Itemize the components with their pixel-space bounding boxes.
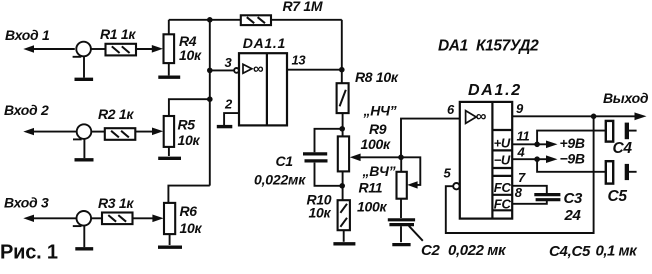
node pin11 junction [534,142,540,148]
svg-text:R8 10к: R8 10к [355,69,399,85]
svg-text:R3 1к: R3 1к [98,195,134,211]
label C3 24 [564,190,584,224]
resistor R2 [105,128,136,140]
op-amp DA1.1 [239,53,287,125]
resistor R7 [241,15,271,25]
svg-text:С4,С5: С4,С5 [549,243,591,260]
svg-text:R9: R9 [369,121,387,137]
svg-text:Рис. 1: Рис. 1 [0,242,58,264]
ground (input 3 jack) [75,226,93,249]
svg-text:DA1.2: DA1.2 [468,82,522,99]
svg-text:FC: FC [494,180,512,195]
wire R2 to R5 wiper arrow [135,128,163,136]
label R1 1к [100,26,136,42]
wire -9V rail to C5 [537,159,606,172]
op-amp DA1.2 label [468,82,522,99]
label НЧ R9 100к [361,103,397,153]
svg-text:0,022мк: 0,022мк [254,171,306,187]
svg-text:5: 5 [444,166,452,181]
label R8 10к [355,69,399,85]
potentiometer R5 [164,116,174,147]
capacitor C4 [606,121,637,142]
pin 8 label [515,185,523,200]
pin 6 label [447,102,455,117]
svg-text:С5: С5 [608,188,628,205]
wire R3 to R6 wiper arrow [133,215,164,223]
svg-text:6: 6 [447,102,455,117]
label Рис. 1 [0,242,58,264]
svg-text:R1 1к: R1 1к [100,26,136,42]
wire junction to R11 top [400,157,402,172]
svg-text:С3: С3 [564,190,584,207]
label С4,С5 0,1 мк [549,242,638,259]
ground (R5 bottom) [158,147,181,158]
svg-text:R11: R11 [359,180,383,196]
node R9/C1/R10 [339,183,345,189]
node pin13/rail [339,67,345,73]
wire R4 top to rail [168,20,170,35]
node bus/R5 [207,96,213,102]
svg-text:DA1.1: DA1.1 [243,35,286,51]
node output/feedback [591,114,597,120]
node Вход 2 label [4,102,49,118]
pin 2 label [224,97,233,112]
resistor R10 [338,200,350,230]
wire R1 to R4 wiper arrow [136,45,163,53]
wire pin 7 to C3 [512,186,547,193]
wire C1 bottom to node [315,163,343,186]
wire R9 wiper arrow from junction [350,154,401,162]
svg-text:24: 24 [564,207,582,224]
label C4 [613,140,633,157]
label C2 callout [409,226,507,259]
ground (input 1 jack) [75,56,94,79]
ground (C2 bottom) [392,226,410,244]
svg-text:3: 3 [225,55,233,70]
wire summing bus vertical [209,20,211,186]
pin 9 label [516,101,524,116]
svg-text:10к: 10к [180,220,203,236]
label R6 10к [180,203,203,236]
label R3 1к [98,195,134,211]
wire input 3 with left arrow [23,215,76,222]
svg-text:0,1 мк: 0,1 мк [596,242,639,259]
wire R5 top to bus [169,99,210,116]
svg-text:К157УД2: К157УД2 [476,37,539,54]
svg-text:13: 13 [292,53,307,68]
capacitor C1 [303,154,328,161]
wire pin 9 output line with arrow [512,112,646,120]
svg-text:Вход 3: Вход 3 [4,194,49,210]
jack XS3 [73,211,91,226]
svg-text:−U: −U [494,153,511,168]
wire R11 bottom to C2 [400,199,402,218]
label выход [603,90,649,106]
svg-text:7: 7 [518,170,526,185]
potentiometer R4 [164,34,175,63]
svg-text:11: 11 [517,129,530,144]
ground (input 2 jack) [75,139,94,160]
svg-text:2: 2 [224,97,233,112]
label R7 1М [283,0,323,14]
wire pin 6 net [401,119,460,158]
node bus/pin3 [207,68,213,74]
wire pin 11 with +9V arrow [512,141,557,149]
op-amp DA1.2 [460,102,512,219]
resistor R1 [106,44,137,56]
pin 2 wire to ground [217,113,239,127]
node pin4 junction [534,156,540,162]
wire +9V rail to C4 [537,131,606,145]
svg-text:+U: +U [494,136,511,151]
wire jack1 to R1 [91,48,106,50]
resistor R3 [102,213,133,225]
ground (R10 bottom) [333,230,355,244]
pin 7 label [518,170,526,185]
svg-text:R7 1М: R7 1М [283,0,323,14]
wire R9 bottom to R10 [342,171,344,200]
pin 13 label [292,53,307,68]
label R2 1к [98,106,134,122]
svg-text:DA1: DA1 [438,37,468,54]
svg-text:∞: ∞ [253,61,264,78]
wire input 2 with left arrow [23,128,76,135]
wire right rail [341,20,343,83]
svg-text:С1: С1 [276,153,294,169]
wire top rail left segment [169,19,241,21]
pin 11 label [517,129,530,144]
svg-text:8: 8 [515,185,523,200]
wire R8 to R9 [342,113,344,136]
svg-text:С4: С4 [613,140,633,157]
svg-text:−9В: −9В [560,151,585,167]
node junction rail/bus [207,17,213,23]
svg-text:0,022 мк: 0,022 мк [448,242,507,259]
svg-text:100к: 100к [357,198,387,214]
label DA1 К157УД2 [438,37,539,54]
resistor R8 [337,83,349,113]
svg-text:С2: С2 [421,242,441,259]
pin 4 label [517,145,526,160]
svg-text:+9В: +9В [560,135,585,151]
jack XS2 [73,124,91,139]
label R4 10к [179,33,202,63]
ground (R6 bottom) [158,234,182,247]
wire bus bottom corner to R6 [168,186,209,203]
wire pin 13 output [287,69,342,71]
svg-text:4: 4 [517,145,526,160]
node R9 wiper/R11 junction [398,155,404,161]
label C5 [608,188,628,205]
wire jack3 to R3 [91,217,102,219]
svg-text:Выход: Выход [603,90,649,106]
potentiometer R11 [397,172,407,199]
svg-text:100к: 100к [361,136,391,152]
op-amp DA1.1 label [243,35,286,51]
svg-text:R2 1к: R2 1к [98,106,134,122]
svg-text:„ВЧ”: „ВЧ” [362,163,396,179]
node R8/R9/C1 [339,126,345,132]
label C1 [254,153,306,187]
wire pin 4 with -9V arrow [512,155,557,163]
wire input 1 with left arrow [23,45,75,52]
wire pin 8 to C3 [512,200,547,203]
label R5 10к [178,117,201,149]
ground (R4 bottom) [158,63,180,77]
wire bus to pin 3 [210,68,239,73]
pin 5 label [444,166,452,181]
wire feedback loop pin5 to output [446,116,594,233]
svg-text:10к: 10к [179,47,202,63]
svg-text:„НЧ”: „НЧ” [363,103,397,119]
pin 5 input circle [453,183,459,189]
svg-text:∞: ∞ [476,108,487,125]
wire R11 wiper loop with arrow [401,157,420,188]
label R10 10к [307,191,332,220]
capacitor C3 [534,195,560,200]
label -9В [560,151,585,167]
potentiometer R9 [338,136,349,171]
potentiometer R6 [164,203,175,234]
svg-text:R5: R5 [178,117,196,133]
pin 3 label [225,55,233,70]
label +9В [560,135,585,151]
node Вход 3 label [4,194,49,210]
capacitor C5 [606,161,637,183]
svg-text:Вход 2: Вход 2 [4,102,49,118]
wire top rail right segment [271,19,342,21]
svg-text:Вход 1: Вход 1 [5,27,50,43]
node Вход 1 label [5,27,50,43]
svg-text:R6: R6 [180,203,198,219]
jack XS1 [73,42,91,57]
wire jack2 to R2 [91,131,105,133]
capacitor C2 [388,220,415,225]
svg-text:9: 9 [516,101,524,116]
svg-text:10к: 10к [309,204,332,220]
wire node to C1 top [315,129,343,152]
svg-text:10к: 10к [178,132,201,148]
svg-text:FC: FC [494,197,512,212]
label ВЧ R11 100к [357,163,396,214]
